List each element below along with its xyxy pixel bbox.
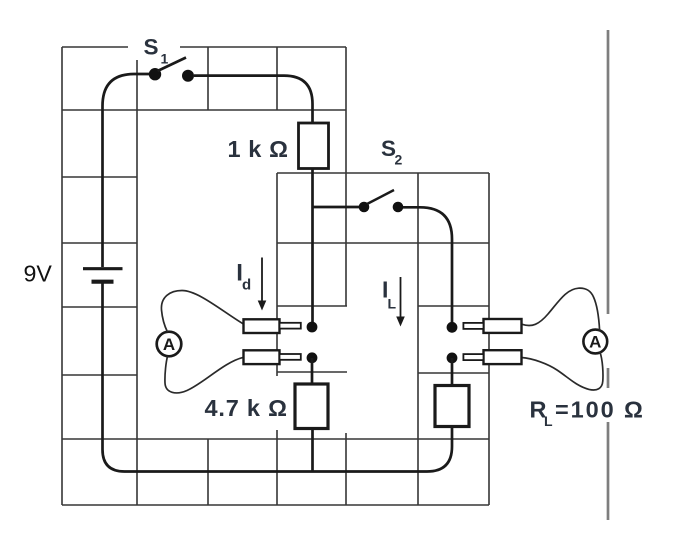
breadboard grid lines: [62, 47, 489, 505]
switch S2: [359, 190, 404, 212]
wire: right ammeter bottom lead to bottom probe: [522, 352, 603, 390]
resistor 4.7k ohm: [295, 384, 328, 429]
node: right bottom junction dot: [447, 353, 458, 364]
svg-text:d: d: [242, 277, 251, 294]
label Id with current arrow: [236, 258, 266, 311]
wire: 1k resistor down to top node: [311, 169, 314, 327]
probe: left bottom test clip: [244, 350, 301, 364]
wire: left bottom node to 4.7k resistor: [311, 358, 314, 384]
wire: right bottom node to load resistor RL: [451, 358, 454, 386]
probe: left top test clip: [244, 319, 301, 333]
node: right top junction dot: [447, 322, 458, 333]
resistor RL 100 ohm: [435, 386, 469, 427]
svg-text:1 k Ω: 1 k Ω: [228, 136, 289, 162]
label IL with current arrow: [382, 277, 405, 327]
svg-text:9V: 9V: [24, 261, 53, 287]
svg-text:4.7 k Ω: 4.7 k Ω: [205, 395, 288, 421]
wire: S1 to 1k resistor: [194, 76, 313, 122]
battery B1 negative plate: [92, 280, 114, 284]
svg-text:A: A: [589, 333, 601, 352]
resistor 1k ohm: [299, 123, 329, 169]
ammeter A1 (left): [157, 332, 182, 357]
switch S1: [149, 58, 194, 82]
svg-text:2: 2: [395, 152, 403, 168]
wire: left ammeter bottom lead to bottom probe: [165, 356, 244, 393]
probe: right bottom test clip: [463, 350, 521, 364]
svg-text:L: L: [388, 296, 397, 312]
svg-text:A: A: [163, 335, 175, 354]
wire: 4.7k resistor to bottom rail: [311, 429, 314, 472]
wire: battery minus down and along bottom to load resistor: [103, 282, 453, 472]
wire: battery loop from S1 left contact down to battery plus: [103, 74, 150, 267]
svg-text:1: 1: [161, 51, 169, 67]
node: left top junction dot: [307, 322, 318, 333]
far-right rail (gray vertical line): [607, 30, 610, 520]
wire: right ammeter top lead to top probe: [522, 288, 600, 330]
wire: left ammeter top lead to top probe: [161, 291, 243, 333]
svg-text:=100 Ω: =100 Ω: [555, 397, 645, 423]
battery B1 positive plate: [83, 267, 123, 270]
svg-text:L: L: [544, 413, 553, 429]
probe: right top test clip: [463, 319, 521, 333]
node: left bottom junction dot: [307, 352, 318, 363]
ammeter A2 (right): [583, 330, 607, 354]
wire: S2 right contact down to right top node: [403, 207, 452, 327]
svg-text:S: S: [144, 35, 159, 60]
wire: branch to S2 left contact: [313, 206, 359, 209]
